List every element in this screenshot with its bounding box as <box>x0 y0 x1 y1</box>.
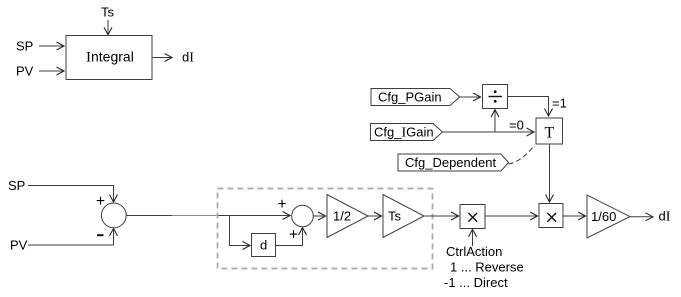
dashed group box <box>218 189 433 269</box>
svg-text:+: + <box>278 196 287 213</box>
wire PV into Integral block <box>39 70 64 72</box>
svg-text:dI: dI <box>659 209 671 225</box>
wire Integral output dI <box>152 57 172 59</box>
tag Cfg_PGain <box>371 89 460 106</box>
svg-text:1/2: 1/2 <box>333 209 351 224</box>
svg-text:Ts: Ts <box>101 5 115 20</box>
tag Cfg_Dependent <box>398 154 509 171</box>
svg-text:=0: =0 <box>509 118 524 133</box>
tag Cfg_IGain <box>371 124 443 141</box>
label x (multiplier 2) <box>547 213 556 222</box>
svg-text:+: + <box>289 227 298 244</box>
gain 1/2 triangle <box>327 195 368 238</box>
svg-text:Cfg_IGain: Cfg_IGain <box>374 125 434 141</box>
gain Ts triangle <box>383 195 424 238</box>
summing junction (SP-PV) <box>101 203 126 228</box>
svg-text:T: T <box>545 125 555 142</box>
wire multiplier 2 to 1/60 gain <box>563 215 586 217</box>
multiplier 1 box <box>460 205 485 229</box>
wire 1/60 to dI output <box>630 216 653 218</box>
wire divider to T selector <box>508 97 549 117</box>
svg-text:1/60: 1/60 <box>591 209 616 224</box>
svg-text:1 ... Reverse: 1 ... Reverse <box>450 260 524 275</box>
block Integral <box>66 36 152 80</box>
wire segment (lighter) before dashed box <box>172 215 218 217</box>
wire 1/2 to Ts gain <box>368 215 382 217</box>
divider box <box>483 85 508 109</box>
wire summing junction to inner adder <box>126 215 290 217</box>
inner summing junction <box>292 205 314 227</box>
wire inner adder to 1/2 gain <box>313 215 325 217</box>
svg-text:Cfg_Dependent: Cfg_Dependent <box>405 155 496 170</box>
svg-text:Integral: Integral <box>86 49 134 66</box>
multiplier 2 box <box>539 204 563 228</box>
svg-text:=1: =1 <box>552 96 567 111</box>
svg-text:-1 ... Direct: -1 ... Direct <box>444 275 508 290</box>
svg-text:dI: dI <box>182 50 194 66</box>
wire PV to summing junction <box>28 228 114 245</box>
gain 1/60 triangle <box>587 195 630 238</box>
wire d block to inner adder <box>276 228 303 246</box>
dashed wire Cfg_Dependent to T selector <box>509 147 534 165</box>
svg-text:SP: SP <box>16 39 33 54</box>
svg-text:CtrlAction: CtrlAction <box>446 244 502 259</box>
svg-text:d: d <box>260 238 267 253</box>
selector T box <box>536 118 563 144</box>
label - (PV sign) <box>97 234 104 236</box>
svg-text:Ts: Ts <box>388 209 402 224</box>
wire SP into Integral block <box>39 45 64 47</box>
svg-text:PV: PV <box>10 238 28 253</box>
wire multiplier 1 to multiplier 2 <box>485 215 538 217</box>
block d (delay) <box>252 234 276 257</box>
wire SP to summing junction <box>28 186 114 203</box>
wire Cfg_PGain to divider <box>460 96 481 98</box>
wire CtrlAction into multiplier 1 <box>472 229 474 246</box>
svg-text:SP: SP <box>8 178 25 193</box>
svg-text:Cfg_PGain: Cfg_PGain <box>378 90 442 105</box>
wire Ts gain to multiplier 1 <box>424 215 459 217</box>
svg-text:PV: PV <box>16 64 34 79</box>
wire T selector to multiplier 2 <box>549 145 551 203</box>
label divide <box>489 90 503 102</box>
wire branch up into divider <box>494 110 496 132</box>
wire Ts into Integral block <box>107 20 109 35</box>
label x (multiplier 1) <box>468 213 477 222</box>
wire Cfg_IGain to T selector <box>443 131 534 133</box>
wire branch down to d block <box>230 216 251 246</box>
